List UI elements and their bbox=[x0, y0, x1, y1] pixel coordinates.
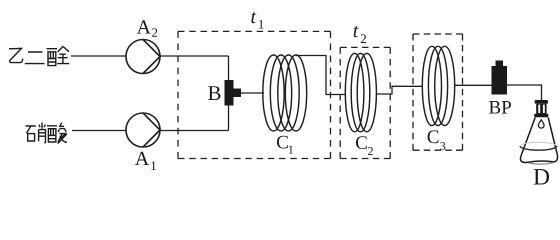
coil C2 bbox=[345, 53, 376, 131]
wire C2 outlet jog up to C3 bbox=[377, 86, 424, 94]
wire C3 to BP bbox=[454, 84, 492, 86]
醛: right 全 bbox=[57, 46, 69, 63]
wire corner up to mixer B bottom bbox=[228, 106, 230, 131]
wire pump A2 to corner bbox=[160, 55, 229, 57]
硝: right 肖 bbox=[39, 123, 46, 143]
wire nitric acid to pump A1 bbox=[72, 130, 126, 132]
label BP bbox=[489, 101, 511, 114]
二 bbox=[25, 52, 45, 64]
wire C1 top outlet bbox=[296, 56, 346, 95]
乙 bbox=[9, 48, 23, 62]
label C2 bbox=[356, 136, 367, 149]
label t1 bbox=[251, 12, 256, 23]
coil C1 bbox=[263, 55, 307, 131]
dashed box around C3 bbox=[413, 34, 463, 150]
chinese text: nitric acid 硝酸 bbox=[26, 123, 68, 144]
wire BP to flask corner bbox=[507, 85, 542, 102]
flask D droplet bbox=[538, 120, 544, 128]
coil C3 bbox=[422, 46, 454, 125]
dashed box t1 bbox=[178, 31, 331, 158]
flask D liquid level bottom arc bbox=[520, 146, 557, 150]
flask D body outline bbox=[520, 117, 557, 162]
pump A1 bbox=[126, 113, 160, 147]
label B bbox=[208, 86, 220, 100]
wire glyoxal to pump A2 bbox=[71, 55, 126, 57]
flask D cap top bar bbox=[535, 100, 548, 104]
back-pressure regulator BP body bbox=[492, 66, 508, 95]
醛: left 酉 bbox=[47, 49, 58, 66]
flask D liquid level top arc bbox=[520, 142, 557, 146]
chinese text: glyoxal 乙二醛 bbox=[9, 46, 69, 65]
flask D base shadow arc bbox=[528, 163, 552, 164]
flask D cap white slits bbox=[538, 105, 540, 113]
wire mixer B to coil C1 bbox=[241, 92, 264, 94]
label t2 bbox=[354, 26, 359, 37]
pump A2 bbox=[126, 40, 160, 74]
flask D cap body bbox=[536, 104, 546, 114]
label C1 bbox=[277, 136, 288, 149]
label C3 bbox=[428, 130, 439, 143]
BP nub bbox=[496, 61, 504, 67]
wire corner down to mixer B top bbox=[228, 56, 230, 80]
wire pump A1 to corner bbox=[160, 130, 229, 132]
flask D cap bottom bar bbox=[534, 114, 548, 118]
酸: left 酉 bbox=[47, 126, 57, 142]
硝: left 石 bbox=[26, 126, 36, 141]
酸: right 夋 bbox=[58, 123, 67, 144]
label D bbox=[534, 169, 549, 184]
label A1 bbox=[135, 152, 149, 165]
dashed box t2 bbox=[340, 47, 390, 158]
label A2 bbox=[137, 20, 151, 33]
mixer B nub bbox=[234, 89, 242, 98]
mixer B body bbox=[225, 80, 234, 106]
